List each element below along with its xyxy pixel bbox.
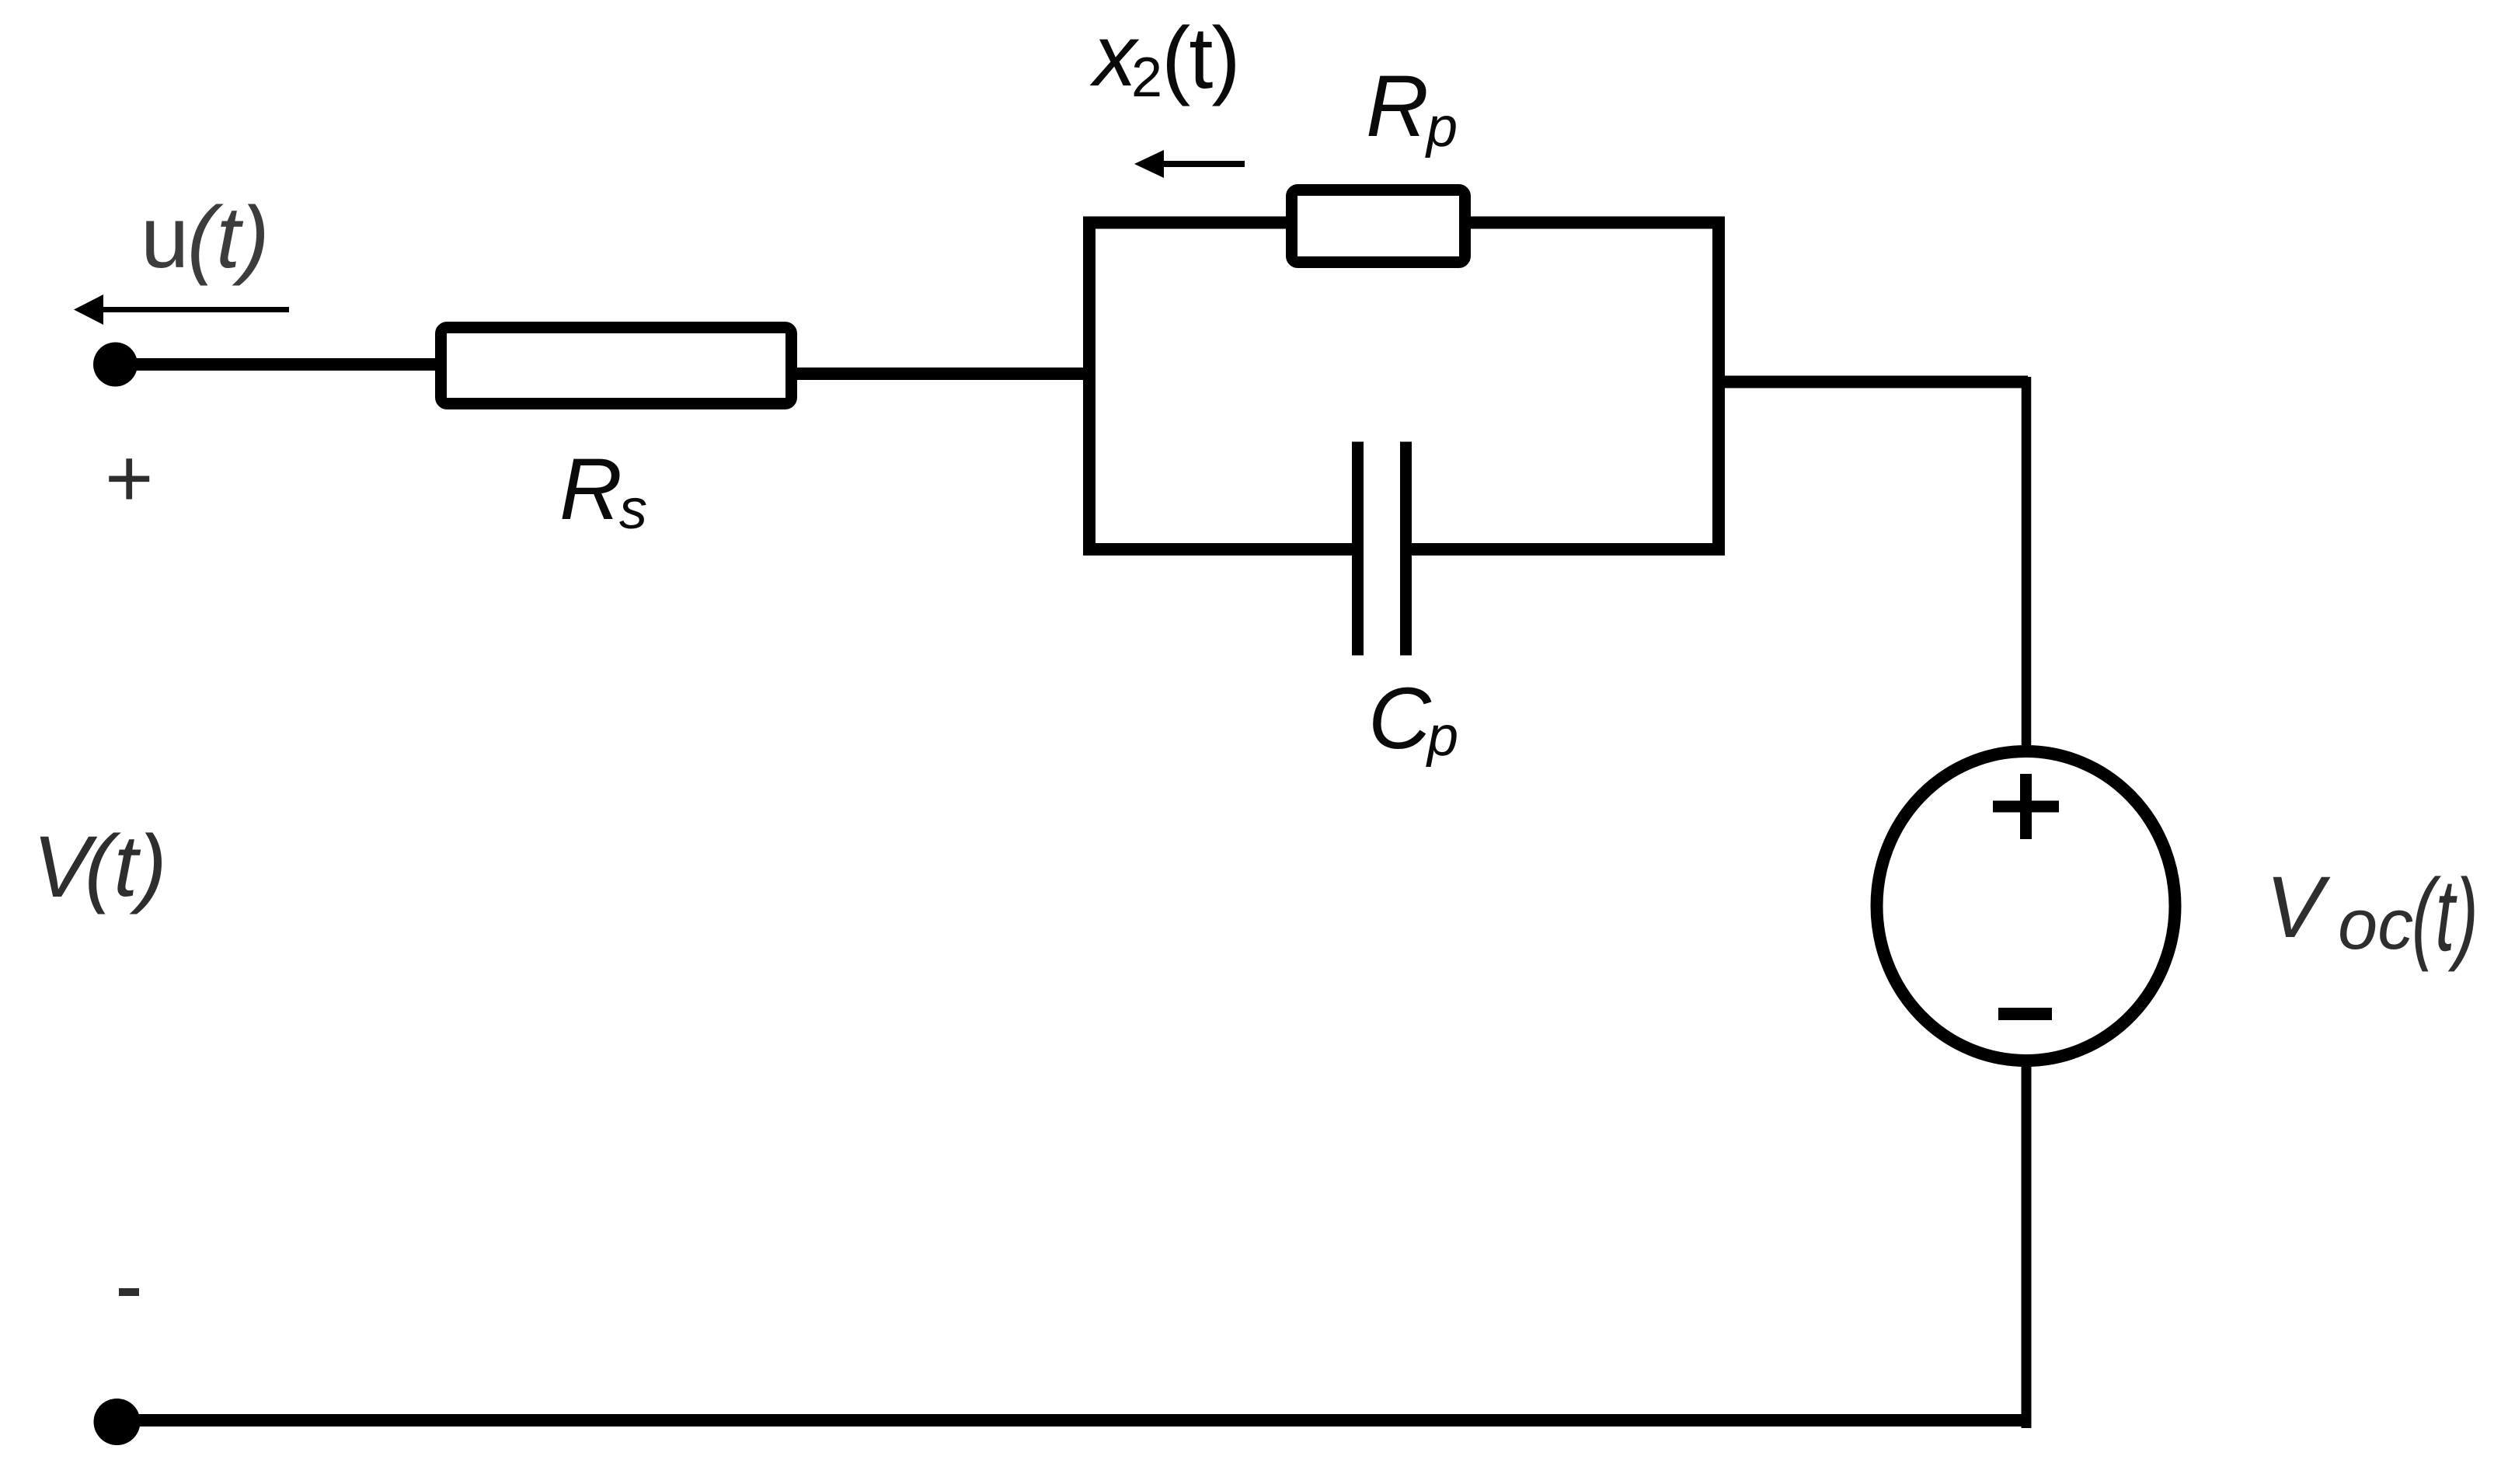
label V(t) <box>33 824 91 911</box>
wire (RC loop bottom edge, left of Cp) <box>1083 543 1352 556</box>
label x2(t) <box>1093 12 1137 99</box>
minus symbol inside source <box>1998 1008 2052 1020</box>
capacitor Cp (right plate) <box>1400 442 1412 656</box>
wire (Rs to parallel RC block) <box>791 368 1089 380</box>
label Cp <box>1368 675 1431 762</box>
wire (source bottom to bottom rail) <box>2022 1062 2032 1428</box>
wire (RC loop bottom edge, right of Cp) <box>1411 543 1725 556</box>
label Voc(t) <box>2266 864 2324 951</box>
plus symbol inside source <box>1993 774 2059 839</box>
wire (bottom rail) <box>117 1414 2029 1427</box>
label u(t) <box>141 194 189 281</box>
node B (bottom-left terminal dot) <box>94 1399 141 1445</box>
resistor Rp <box>1292 190 1465 263</box>
voltage source Voc (circle) <box>1877 751 2175 1061</box>
wire (parallel RC loop: left, top, right edges) <box>1089 223 1719 550</box>
current arrow u(t) <box>102 307 289 312</box>
wire (RC block to right corner) <box>1719 376 2028 388</box>
label plus (left terminal polarity) <box>105 437 154 520</box>
capacitor Cp (left plate) <box>1352 442 1364 656</box>
label minus (left terminal polarity) <box>119 1288 150 1299</box>
wire (right vertical, corner down to source top) <box>2022 377 2032 751</box>
label Rp <box>1366 63 1429 150</box>
current arrow x2(t) <box>1162 161 1245 167</box>
node A (top-left terminal dot) <box>93 343 138 387</box>
label Rs <box>559 446 622 533</box>
resistor Rs <box>441 328 792 404</box>
wire (top-left terminal to Rs) <box>117 358 441 371</box>
